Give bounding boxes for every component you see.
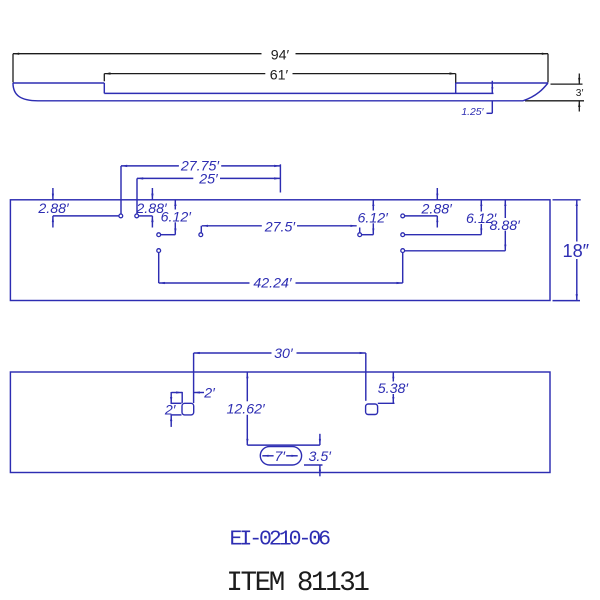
svg-text:1.25′: 1.25′ [461,107,484,118]
extension line 27.5 right [359,228,361,233]
profile top edge right [456,82,548,84]
hole row1 left circle A [119,214,123,218]
hole row3 right circle [401,249,405,253]
extension line 30 right [365,353,367,401]
extension line 94 right [547,54,549,83]
extension line row2 circle1 to 6.12 dim [161,234,175,236]
dimension 18-inch line [576,200,578,301]
dimension 27.75-inch line [121,165,280,167]
profile bottom edge [38,100,523,102]
dimension 2.88-inch #2 [151,188,153,228]
dimension 25-inch line [137,177,280,179]
dimension 7-inch label [275,449,287,465]
hole row2 circle 3 [358,233,362,237]
dimension 2.88-inch #1 label [37,201,70,217]
dimension 25-inch label [198,172,219,188]
extension line 3 top [551,83,583,85]
dimension 3.5-inch label [309,449,333,465]
extension line row1 right circle to 2.88 dim [405,215,437,217]
svg-text:6.12′: 6.12′ [358,211,390,227]
dimension 2.88-inch #3 label [421,202,454,218]
dimension 3-inch line [578,74,580,112]
svg-text:7′: 7′ [275,449,287,465]
extension line 3 bottom [525,100,584,102]
svg-text:61′: 61′ [270,67,289,83]
extension line row1 from 2.88 dim to circle A [53,215,119,217]
dimension 2.88-inch #2 label [135,201,168,217]
front view outline rectangle [10,200,550,301]
dimension 27.5-inch label [264,219,297,235]
dimension 3.5-inch [319,434,321,477]
dimension 5.38-inch label [378,381,410,397]
extension line row2 circle3 to 6.12 dim [362,234,373,236]
extension line 30 left [193,353,195,403]
extension line 42.24 right [402,253,404,283]
dimension 12.62-inch [246,372,248,445]
svg-text:30′: 30′ [274,346,294,362]
profile left end curve [13,83,38,101]
dimension 12.62-inch label [227,402,267,418]
leader 1.25 [487,101,493,114]
part number EI-0210-06 [230,527,331,551]
dimension 2-inch horizontal [172,391,205,393]
dimension 18-inch label [562,241,589,261]
dimension 30-inch line [194,352,366,354]
extension line 25 left [136,178,138,213]
dimension 6.12-inch #1 [174,200,176,235]
extension line row1 circle B to 2.88 dim [139,215,153,217]
extension line 5.38 [378,402,395,404]
svg-text:94′: 94′ [271,47,290,63]
dimension 27.5-inch line [202,225,357,227]
dimension 6.12-inch #2 label [358,211,390,227]
dimension 61-inch label [270,67,289,83]
svg-text:5.38′: 5.38′ [378,381,410,397]
dimension 30-inch label [274,346,294,362]
hole row2 circle 1 [157,233,161,237]
dimension 42.24-inch label [253,276,293,292]
svg-text:42.24′: 42.24′ [253,276,293,292]
extension line 61 left [103,74,105,82]
dimension 42.24-inch line [159,282,403,284]
dimension 6.12-inch #1 label [161,210,193,226]
svg-text:27.5′: 27.5′ [264,219,297,235]
extension line 27.75/25 right shared [279,164,281,192]
dimension 8.88-inch label [490,218,522,234]
dimension 61-inch line [104,72,455,74]
extension line row3 circle to 8.88 dim [405,250,505,252]
svg-text:8.88′: 8.88′ [490,218,522,234]
hole row3 left circle [157,249,161,253]
profile recessed top edge [104,92,493,94]
dimension 27.75-inch label [180,158,221,174]
svg-text:18″: 18″ [562,241,589,261]
hole row2 circle 2 [199,233,203,237]
hole row1 left circle B [135,214,139,218]
dimension 6.12-inch #3 label [466,211,498,227]
extension line 18 bottom [553,300,581,302]
profile right end curve [523,83,548,101]
dimension 2-inch vertical [170,392,172,427]
dimension 5.38-inch [392,372,394,403]
extension line slot centerline [247,444,320,446]
hole row1 right circle [401,214,405,218]
item number 81131 [226,568,369,599]
svg-text:6.12′: 6.12′ [161,210,193,226]
extension line 2v top [171,402,182,404]
extension line row2 circle4 to 6.12 dim [405,234,481,236]
profile step right [455,83,457,93]
extension line 27.5 left [200,226,202,233]
dimension 6.12-inch #2 [372,200,374,235]
dimension 1.25-inch label [461,107,484,118]
slot stadium cutout [260,447,301,465]
extension line 42.24 left [158,253,160,283]
extension line 18 top [553,199,581,201]
dimension 2.88-inch #3 [436,188,438,228]
profile top edge left [13,82,104,84]
dimension 2-inch vertical label [164,402,177,418]
extension line 2v bottom [171,414,182,416]
svg-text:2.88′: 2.88′ [421,202,454,218]
svg-text:2′: 2′ [203,385,216,401]
extension line 27.75 left [120,166,122,214]
dimension 8.88-inch [504,200,506,251]
svg-text:EI-0210-06: EI-0210-06 [230,527,331,551]
extension line 3.5 bottom [304,464,323,466]
dimension 94-inch label [271,47,290,63]
square hole left [182,403,194,415]
extension line 2h [181,392,183,403]
dimension 7-inch [262,455,297,457]
dimension 3-inch label [576,88,584,99]
dimension 6.12-inch #3 [480,200,482,235]
extension line 61 right [455,74,457,84]
bottom view outline rectangle [10,372,550,473]
svg-text:ITEM 81131: ITEM 81131 [226,568,369,599]
svg-text:3′: 3′ [576,88,584,99]
dimension 1.25-inch arrow line [491,81,493,94]
dimension 94-inch line [13,53,548,55]
svg-text:25′: 25′ [198,172,219,188]
svg-text:3.5′: 3.5′ [309,449,333,465]
svg-text:2.88′: 2.88′ [37,201,70,217]
hole row2 circle 4 [401,233,405,237]
dimension 2-inch horizontal label [203,385,216,401]
square hole right [366,404,378,415]
extension line 94 left [12,54,14,83]
dimension 2.88-inch #1 [52,188,54,228]
svg-text:12.62′: 12.62′ [227,402,267,418]
profile step left [103,83,105,93]
svg-text:2′: 2′ [164,402,177,418]
